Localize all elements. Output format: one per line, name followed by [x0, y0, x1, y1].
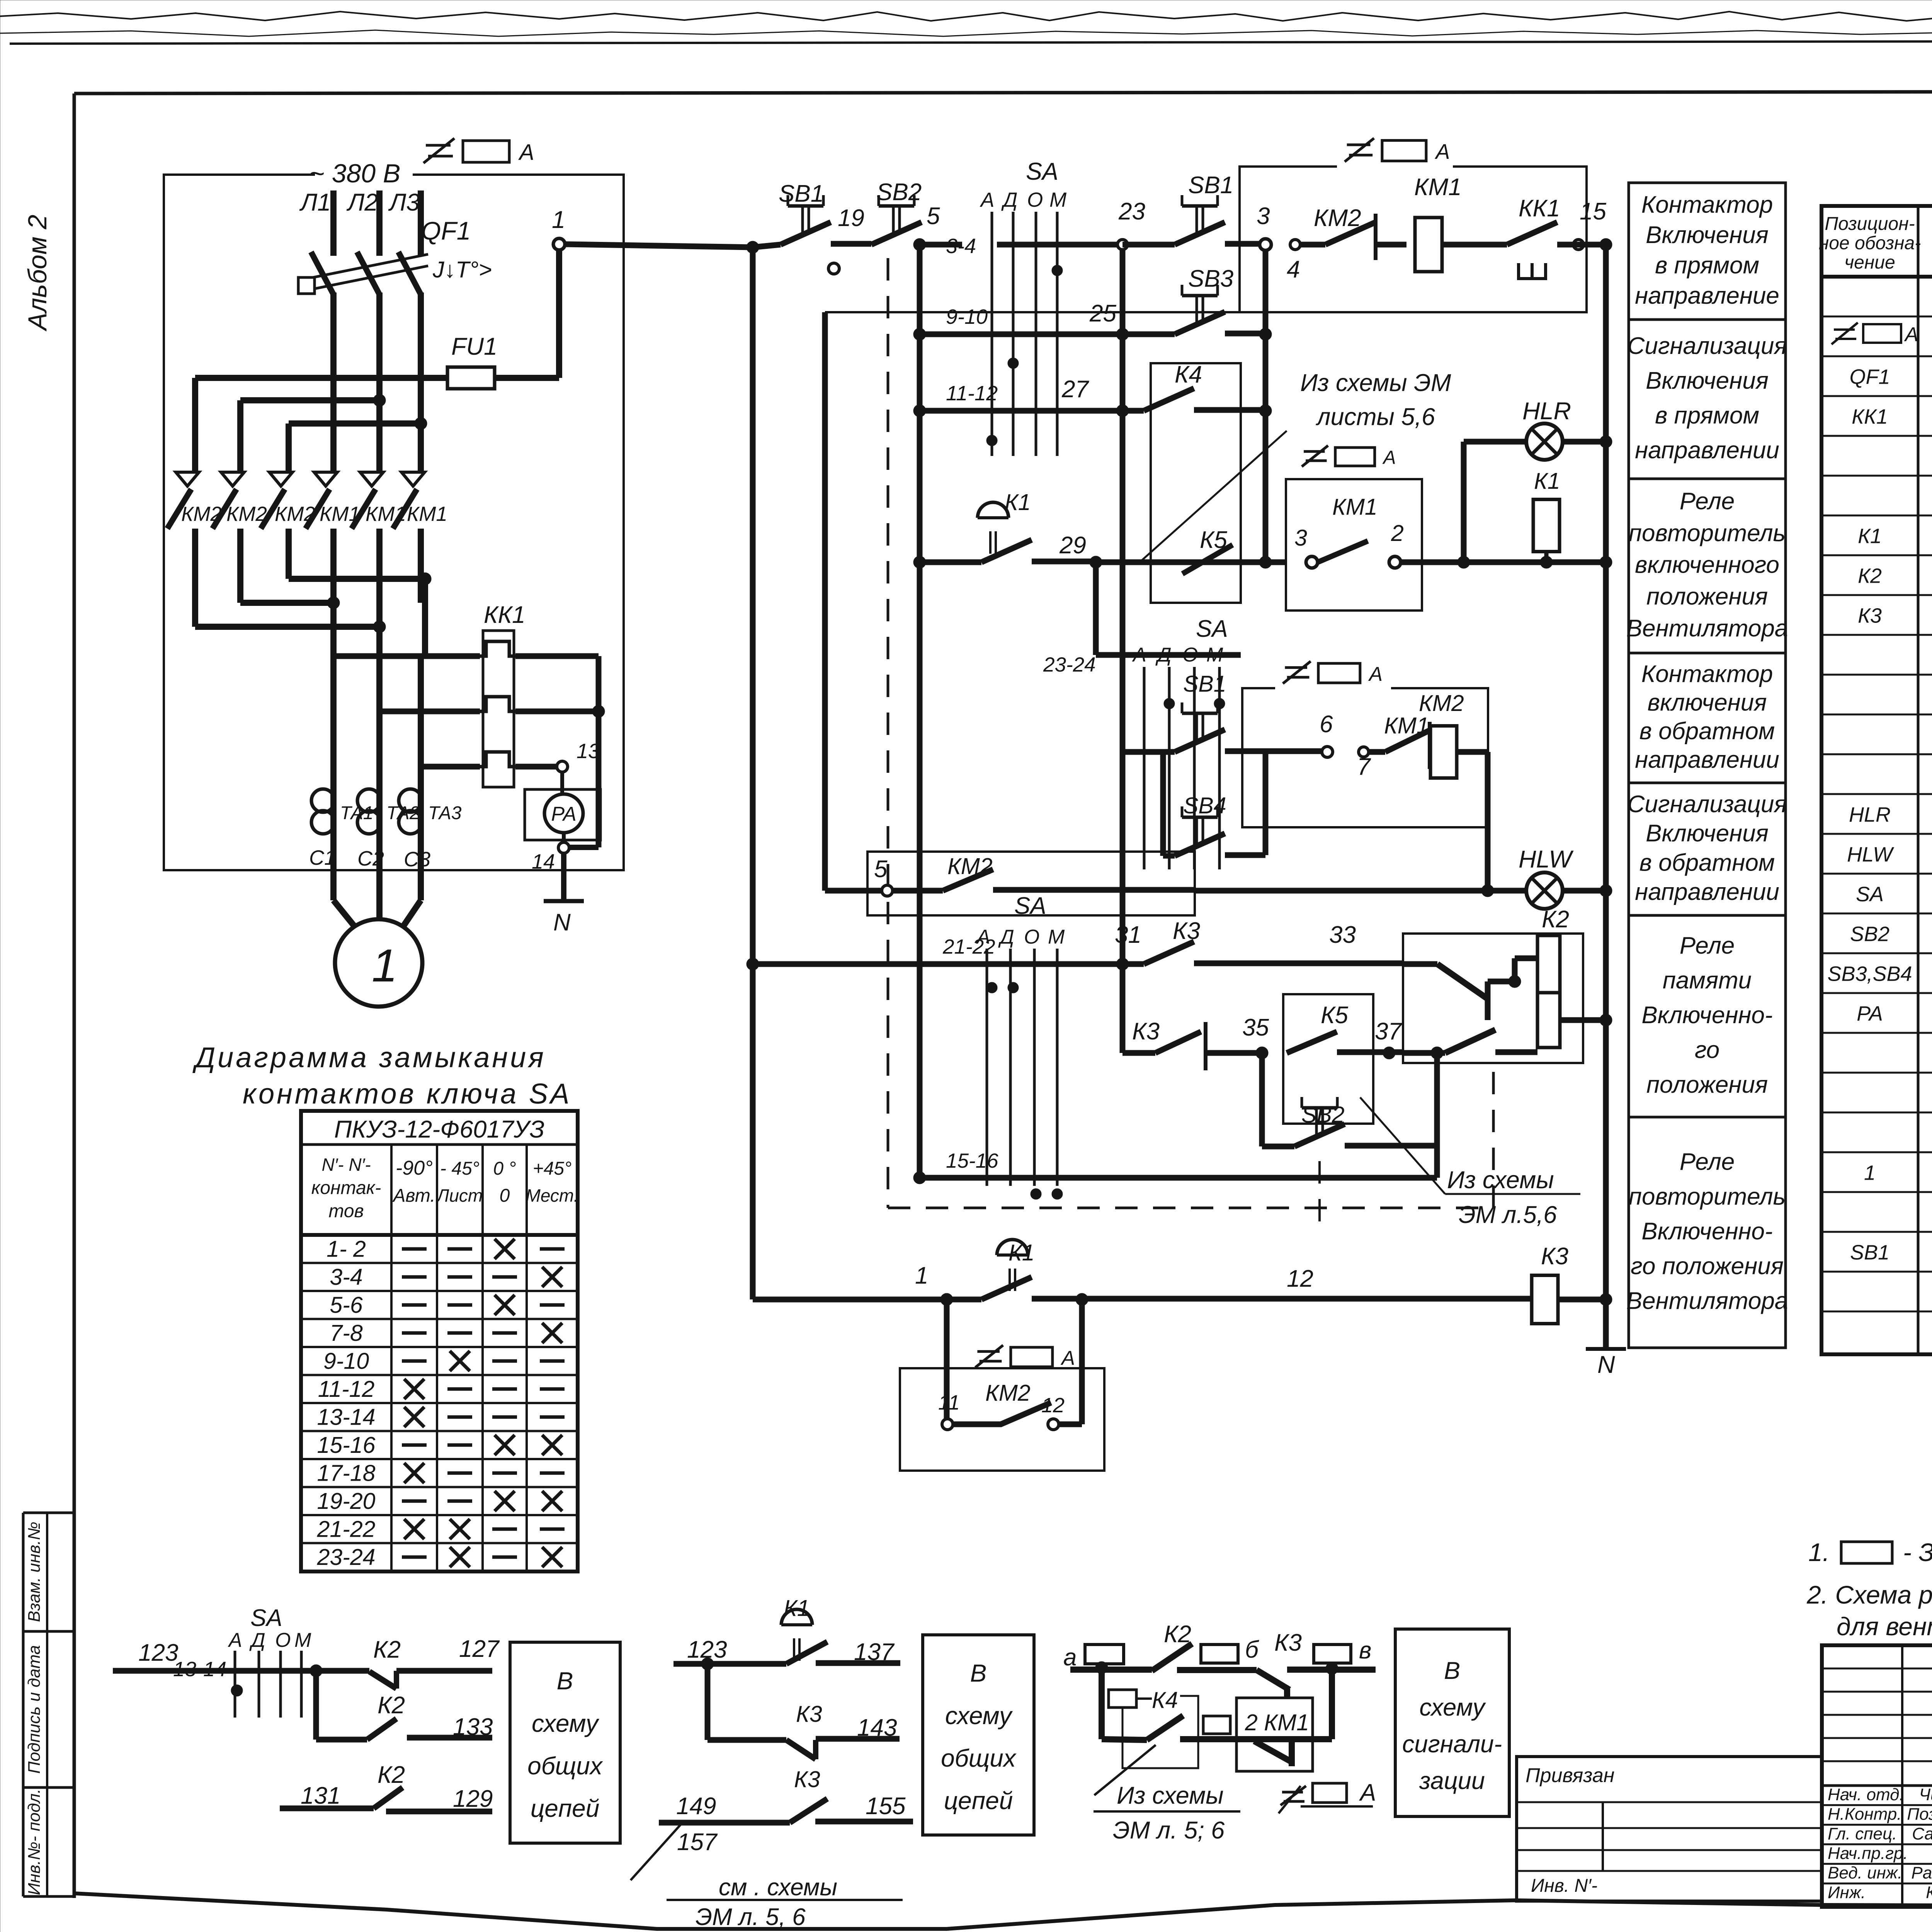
svg-text:Мест.: Мест. [526, 1185, 579, 1206]
svg-text:КМ2: КМ2 [985, 1380, 1031, 1406]
svg-text:SB1: SB1 [1850, 1241, 1889, 1264]
ground N [561, 853, 566, 901]
svg-text:Д: Д [1001, 189, 1017, 211]
svg-text:М: М [1049, 189, 1067, 211]
svg-text:К1: К1 [1534, 468, 1560, 494]
svg-text:К3: К3 [1541, 1243, 1568, 1270]
K2 lower contact [1403, 1050, 1445, 1056]
svg-text:155: 155 [866, 1793, 906, 1820]
svg-text:в прямом: в прямом [1655, 402, 1759, 429]
svg-text:Л3: Л3 [388, 189, 420, 216]
svg-text:К2: К2 [1858, 565, 1882, 588]
svg-text:1: 1 [915, 1262, 928, 1289]
svg-text:HLW: HLW [1519, 846, 1574, 873]
svg-text:К3: К3 [1274, 1629, 1302, 1656]
svg-text:Д: Д [249, 1629, 265, 1651]
svg-text:Включенно-: Включенно- [1641, 1002, 1772, 1029]
svg-text:А: А [228, 1629, 242, 1651]
svg-text:13-14: 13-14 [317, 1404, 376, 1430]
svg-text:Реле: Реле [1680, 1149, 1735, 1175]
ammeter PA [525, 789, 600, 840]
box to common circuits (2) [923, 1635, 1034, 1835]
svg-text:11: 11 [938, 1391, 960, 1414]
svg-text:чение: чение [1844, 252, 1895, 273]
relay contact K3 [705, 1664, 711, 1740]
wire from interlock to row 5-KM2 [825, 311, 1240, 313]
memory relay K2 box [1403, 934, 1583, 1063]
wire row 9-10 [913, 328, 926, 340]
svg-text:контактов ключа SA: контактов ключа SA [243, 1078, 571, 1110]
svg-text:К4: К4 [1175, 361, 1202, 388]
svg-text:С2: С2 [357, 847, 384, 870]
svg-text:К4: К4 [1152, 1687, 1178, 1713]
svg-text:Сигнализация: Сигнализация [1628, 791, 1787, 818]
svg-text:14: 14 [532, 850, 555, 873]
svg-text:Включения: Включения [1646, 367, 1769, 394]
svg-text:SB1: SB1 [1183, 671, 1226, 697]
svg-text:SB3,SB4: SB3,SB4 [1827, 963, 1912, 986]
svg-text:0 °: 0 ° [493, 1158, 516, 1179]
svg-text:контак-: контак- [311, 1178, 381, 1198]
svg-text:Козлов: Козлов [1926, 1883, 1932, 1902]
wire row 3-4 [753, 245, 781, 247]
svg-text:-90°: -90° [396, 1157, 433, 1179]
svg-text:13: 13 [577, 740, 600, 763]
svg-text:Привязан: Привязан [1526, 1764, 1614, 1787]
relay coil K2 [1537, 935, 1560, 993]
svg-text:К3: К3 [794, 1767, 820, 1792]
svg-text:общих: общих [941, 1744, 1017, 1772]
svg-text:6: 6 [1320, 711, 1333, 738]
svg-text:25: 25 [1089, 300, 1116, 327]
svg-text:SA: SA [1856, 883, 1884, 906]
svg-text:включения: включения [1648, 689, 1767, 716]
sub bus wire (node 5) [917, 245, 923, 1178]
sidebar boxes [22, 1513, 25, 1896]
svg-text:+45°: +45° [533, 1158, 572, 1179]
svg-text:Д: Д [998, 926, 1014, 948]
svg-text:Из схемы: Из схемы [1117, 1782, 1224, 1809]
svg-text:положения: положения [1646, 583, 1768, 610]
phase wire L1 [330, 190, 337, 256]
svg-text:1.: 1. [1808, 1538, 1830, 1566]
svg-text:Радюшкин: Радюшкин [1911, 1864, 1932, 1883]
crossover wire to L3 [289, 420, 421, 427]
svg-text:Позицион-: Позицион- [1825, 214, 1915, 234]
svg-text:тов: тов [328, 1201, 364, 1221]
svg-text:23-24: 23-24 [317, 1544, 376, 1570]
svg-text:23-24: 23-24 [1043, 653, 1096, 676]
svg-text:К3: К3 [1173, 918, 1200, 944]
svg-text:Реле: Реле [1680, 488, 1735, 515]
svg-text:17-18: 17-18 [317, 1460, 376, 1486]
svg-text:Включения: Включения [1646, 820, 1769, 847]
svg-text:5: 5 [927, 203, 940, 230]
svg-text:ПКУЗ-12-Ф6017УЗ: ПКУЗ-12-Ф6017УЗ [334, 1116, 544, 1143]
contactor contact KM1 [1254, 1741, 1292, 1762]
svg-text:Л2: Л2 [346, 189, 378, 216]
panel position marker row [1832, 323, 1858, 344]
svg-text:го положения: го положения [1631, 1253, 1784, 1280]
svg-text:QF1: QF1 [421, 216, 471, 245]
svg-text:повторитель: повторитель [1629, 1184, 1786, 1210]
svg-text:ЭМ л. 5, 6: ЭМ л. 5, 6 [696, 1904, 806, 1930]
svg-text:HLR: HLR [1849, 803, 1891, 827]
svg-text:А: А [1435, 139, 1450, 163]
svg-text:5: 5 [874, 856, 888, 883]
svg-text:КМ1: КМ1 [1332, 494, 1378, 520]
svg-text:31: 31 [1115, 922, 1141, 948]
svg-text:направлении: направлении [1635, 747, 1779, 773]
svg-text:схему: схему [532, 1709, 600, 1737]
KM1 box (2 KM1) [1236, 1698, 1313, 1771]
svg-text:КМ1: КМ1 [1414, 174, 1462, 201]
svg-text:3-4: 3-4 [330, 1264, 362, 1290]
svg-text:А: А [1368, 663, 1383, 685]
svg-text:Л1: Л1 [299, 189, 331, 216]
svg-text:Вед. инж.: Вед. инж. [1828, 1864, 1902, 1883]
svg-text:HLW: HLW [1847, 843, 1895, 866]
svg-text:33: 33 [1329, 922, 1356, 948]
svg-text:J↓T°>: J↓T°> [432, 257, 492, 282]
svg-text:3: 3 [1294, 525, 1307, 551]
svg-text:SB2: SB2 [1850, 923, 1889, 946]
node 23 vertical wire [1120, 245, 1126, 964]
svg-text:13-14: 13-14 [173, 1658, 226, 1681]
button SB2 bypass [1259, 1053, 1265, 1146]
svg-text:в: в [1359, 1637, 1371, 1664]
svg-text:направление: направление [1635, 282, 1779, 309]
svg-text:0: 0 [500, 1185, 510, 1206]
motor feeder columns [330, 603, 337, 870]
svg-text:РА: РА [551, 803, 576, 825]
svg-text:О: О [1024, 926, 1039, 948]
svg-text:15-16: 15-16 [946, 1150, 998, 1172]
wire row 15-16 [913, 1172, 926, 1184]
main left bus wire (node 1) [750, 247, 756, 1299]
svg-text:КК1: КК1 [1852, 405, 1888, 429]
svg-text:3: 3 [1257, 203, 1270, 230]
svg-text:2 КМ1: 2 КМ1 [1245, 1710, 1309, 1735]
svg-text:в обратном: в обратном [1639, 718, 1775, 745]
svg-text:ЭМ л. 5; 6: ЭМ л. 5; 6 [1113, 1817, 1225, 1844]
SA closure table [301, 1111, 578, 1571]
relay contact K1 (bell) [913, 556, 926, 568]
svg-text:КМ2: КМ2 [1419, 690, 1464, 716]
svg-text:Нач. отд.: Нач. отд. [1828, 1785, 1904, 1804]
svg-text:РА: РА [1857, 1002, 1883, 1026]
phase wire L3 [418, 190, 424, 256]
functional description column [1629, 183, 1786, 1348]
svg-text:Инв.№- подл.: Инв.№- подл. [25, 1789, 44, 1895]
wire row a-b-v [1070, 1667, 1152, 1673]
svg-text:в прямом: в прямом [1655, 252, 1759, 279]
relay contact K4 [1102, 1739, 1147, 1740]
svg-text:Лист: Лист [436, 1185, 483, 1206]
svg-text:К2: К2 [378, 1762, 405, 1788]
svg-text:К1: К1 [1858, 525, 1882, 548]
link box a [1085, 1645, 1124, 1664]
panel marker [1281, 1786, 1306, 1805]
phase wire L2 [376, 190, 383, 256]
aux contact KM1 (3-2) box [1302, 446, 1328, 466]
svg-text:123: 123 [138, 1639, 178, 1666]
wire fuse to KM2 column [195, 375, 447, 381]
svg-text:Контактор: Контактор [1641, 191, 1773, 218]
svg-text:С1: С1 [309, 846, 336, 869]
svg-text:Вентилятора: Вентилятора [1626, 1288, 1788, 1315]
svg-text:19-20: 19-20 [317, 1488, 376, 1514]
svg-text:N: N [553, 909, 571, 936]
svg-text:В: В [557, 1667, 573, 1695]
svg-text:19: 19 [838, 205, 864, 231]
svg-text:- Заполняется при привязке: - Заполняется при привязке проекта. [1903, 1538, 1932, 1566]
svg-text:N′- N′-: N′- N′- [321, 1155, 371, 1175]
box to signalling scheme [1395, 1629, 1509, 1816]
control panel marker box [1345, 138, 1374, 162]
link box b [1201, 1645, 1238, 1663]
ground N [1586, 1347, 1626, 1351]
contactor main contacts KM2/KM1 [176, 472, 199, 486]
relay contact K2 (second) [313, 1671, 319, 1740]
svg-text:общих: общих [527, 1752, 603, 1780]
svg-text:5-6: 5-6 [330, 1292, 362, 1318]
svg-text:SA: SA [250, 1605, 282, 1631]
svg-text:К5: К5 [1321, 1002, 1349, 1029]
svg-text:15: 15 [1580, 198, 1606, 225]
svg-text:- 45°: - 45° [440, 1158, 480, 1179]
svg-text:А: А [1382, 447, 1396, 468]
svg-text:направлении: направлении [1635, 437, 1779, 464]
svg-text:памяти: памяти [1663, 967, 1752, 994]
svg-text:А: А [980, 189, 994, 211]
svg-text:29: 29 [1059, 532, 1086, 559]
current transformer TA3 [399, 789, 422, 812]
svg-text:2: 2 [1391, 520, 1404, 546]
svg-text:Гл. спец.: Гл. спец. [1828, 1824, 1897, 1843]
crossover wire to L2 [240, 397, 379, 403]
svg-text:Авт.: Авт. [392, 1185, 435, 1206]
svg-text:3-4: 3-4 [946, 235, 976, 258]
node 13 [515, 764, 556, 770]
svg-text:Включения: Включения [1646, 222, 1769, 248]
relay contact K5 box [1283, 994, 1373, 1124]
svg-text:Нач.пр.гр.: Нач.пр.гр. [1828, 1844, 1908, 1863]
link box v [1314, 1645, 1351, 1663]
wire 123 [113, 1668, 316, 1674]
svg-text:2. Схема разработана для: 2. Схема разработана для вентилятора N′-… [1806, 1580, 1932, 1609]
svg-text:К3: К3 [796, 1701, 822, 1727]
svg-text:С3: С3 [404, 848, 430, 871]
svg-text:N: N [1597, 1351, 1615, 1378]
svg-text:127: 127 [459, 1636, 500, 1662]
svg-text:схему: схему [945, 1702, 1013, 1730]
drawing frame [74, 91, 1932, 94]
svg-text:Реле: Реле [1680, 932, 1735, 959]
phase swap wires [195, 624, 379, 630]
motor M1 [330, 870, 337, 900]
svg-text:К2: К2 [1542, 906, 1569, 933]
svg-text:131: 131 [301, 1782, 340, 1809]
svg-text:листы 5,6: листы 5,6 [1315, 403, 1435, 430]
svg-text:О: О [1027, 189, 1043, 211]
svg-text:б: б [1245, 1636, 1259, 1663]
svg-text:Инж.: Инж. [1828, 1883, 1866, 1902]
wire to lamp HLW [1195, 888, 1488, 894]
svg-text:ТА3: ТА3 [428, 803, 462, 823]
right N bus wire [1603, 245, 1609, 1349]
svg-text:12: 12 [1287, 1265, 1313, 1292]
current transformer TA2 [357, 789, 381, 812]
svg-text:КК1: КК1 [484, 602, 526, 628]
svg-text:Включенно-: Включенно- [1641, 1218, 1772, 1245]
svg-text:11-12: 11-12 [318, 1376, 375, 1402]
wire row 11-12 [913, 405, 926, 417]
svg-text:SB1: SB1 [779, 180, 824, 207]
box to common circuits [510, 1642, 620, 1843]
svg-text:для вентилятора N′-: для вентилятора N′- [1837, 1612, 1932, 1641]
parts list table [1821, 206, 1932, 1354]
svg-text:А: А [976, 926, 990, 948]
wire node1 to control bus [565, 244, 753, 247]
svg-text:Взам. инв.№: Взам. инв.№ [25, 1522, 44, 1622]
svg-text:А: А [1904, 323, 1918, 346]
svg-text:О: О [275, 1629, 291, 1651]
svg-text:Позднякова: Позднякова [1907, 1805, 1932, 1824]
svg-text:Сафонова: Сафонова [1912, 1824, 1932, 1843]
svg-text:В: В [970, 1659, 987, 1687]
node 14 [562, 833, 566, 842]
svg-text:КМ2: КМ2 [1314, 205, 1361, 231]
svg-text:в обратном: в обратном [1639, 849, 1775, 876]
svg-text:Инв. N′-: Инв. N′- [1531, 1876, 1597, 1896]
svg-text:К2: К2 [378, 1692, 405, 1719]
relay contact K4 [1151, 363, 1241, 603]
svg-text:1: 1 [372, 940, 398, 992]
svg-text:А: А [1060, 1347, 1075, 1369]
svg-text:Сигнализация: Сигнализация [1628, 333, 1787, 359]
svg-text:1- 2: 1- 2 [327, 1236, 366, 1262]
current transformer TA1 [311, 789, 335, 812]
sheet top torn edge [0, 12, 1932, 21]
svg-text:схему: схему [1419, 1694, 1486, 1721]
reverse branch marker box [1283, 661, 1311, 684]
svg-text:Диаграмма замыкания: Диаграмма замыкания [192, 1041, 546, 1073]
svg-text:23: 23 [1118, 198, 1145, 225]
aux contact KM2 (11-12) box [975, 1345, 1003, 1367]
svg-text:HLR: HLR [1522, 398, 1571, 425]
svg-text:К3: К3 [1132, 1018, 1160, 1045]
svg-text:КМ1: КМ1 [407, 503, 447, 526]
svg-text:11-12: 11-12 [946, 382, 998, 405]
svg-text:КМ2: КМ2 [226, 503, 267, 526]
svg-text:9-10: 9-10 [946, 305, 988, 328]
svg-text:Контактор: Контактор [1641, 661, 1773, 687]
svg-text:го: го [1695, 1037, 1719, 1063]
svg-text:сигнали-: сигнали- [1402, 1731, 1502, 1758]
svg-text:9-10: 9-10 [323, 1348, 369, 1374]
svg-text:Н.Контр.: Н.Контр. [1828, 1805, 1901, 1824]
svg-text:SA: SA [1196, 616, 1228, 642]
svg-text:М: М [294, 1629, 311, 1651]
svg-text:FU1: FU1 [451, 333, 497, 360]
svg-text:ное обозна-: ное обозна- [1819, 233, 1921, 253]
svg-text:цепей: цепей [944, 1787, 1013, 1815]
svg-text:М: М [1048, 926, 1065, 948]
svg-text:SB4: SB4 [1183, 793, 1226, 818]
svg-text:12: 12 [1041, 1394, 1065, 1417]
svg-text:1: 1 [1864, 1162, 1876, 1185]
annex table (Privyazan) [1517, 1757, 1822, 1901]
svg-text:Альбом 2: Альбом 2 [23, 215, 52, 332]
svg-text:положения: положения [1646, 1071, 1768, 1098]
relay contact K3 (NC) [1120, 964, 1126, 1053]
node 3 vertical wire [1263, 245, 1269, 562]
svg-text:КК1: КК1 [1519, 195, 1560, 222]
svg-text:15-16: 15-16 [317, 1432, 376, 1458]
svg-text:Чижиков: Чижиков [1919, 1785, 1932, 1804]
svg-text:157: 157 [677, 1829, 718, 1855]
svg-text:повторитель: повторитель [1629, 520, 1786, 546]
svg-text:А: А [518, 140, 534, 165]
svg-text:27: 27 [1061, 376, 1089, 403]
svg-text:SB3: SB3 [1188, 265, 1233, 292]
svg-text:цепей: цепей [531, 1794, 600, 1822]
svg-text:см . схемы: см . схемы [719, 1874, 837, 1901]
svg-text:направлении: направлении [1635, 879, 1779, 905]
svg-text:~ 380 В: ~ 380 В [309, 159, 400, 188]
K4 branch [1099, 1668, 1105, 1739]
svg-text:4: 4 [1287, 256, 1300, 283]
svg-text:21-22: 21-22 [317, 1516, 376, 1542]
svg-text:А: А [1359, 1779, 1376, 1806]
svg-text:1: 1 [552, 206, 565, 233]
svg-text:Подпись и дата: Подпись и дата [25, 1645, 44, 1774]
aux contact KM2 (5) box [867, 852, 1195, 915]
svg-text:зации: зации [1419, 1767, 1485, 1794]
title block [1822, 1645, 1932, 1907]
power panel box [164, 175, 624, 870]
svg-text:7-8: 7-8 [330, 1320, 362, 1346]
svg-text:К3: К3 [1858, 604, 1882, 628]
svg-text:В: В [1444, 1657, 1460, 1684]
svg-text:129: 129 [453, 1786, 493, 1812]
svg-text:SB1: SB1 [1188, 172, 1233, 199]
panel boundary dashed [887, 258, 889, 1208]
svg-text:Из схемы: Из схемы [1447, 1167, 1554, 1194]
svg-text:SA: SA [1026, 158, 1058, 185]
svg-text:QF1: QF1 [1849, 366, 1890, 389]
relay K2 latching contacts [1403, 961, 1437, 967]
svg-text:37: 37 [1375, 1018, 1402, 1045]
power panel marker [423, 138, 454, 163]
svg-text:ЭМ л.5,6: ЭМ л.5,6 [1459, 1201, 1557, 1228]
wire row 21-22 [747, 958, 759, 970]
sheet top border line [10, 41, 1932, 44]
svg-text:К2: К2 [373, 1636, 401, 1663]
svg-text:149: 149 [676, 1793, 716, 1820]
svg-text:SA: SA [1014, 893, 1046, 919]
svg-text:включенного: включенного [1635, 552, 1779, 578]
svg-text:35: 35 [1242, 1014, 1269, 1041]
svg-text:Вентилятора: Вентилятора [1626, 615, 1788, 642]
svg-text:Из схемы ЭМ: Из схемы ЭМ [1300, 369, 1451, 396]
